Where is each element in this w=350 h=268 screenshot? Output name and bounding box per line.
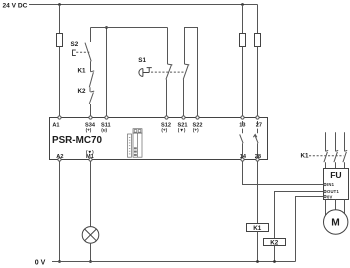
svg-text:S2: S2	[71, 41, 79, 48]
DIP switch marks	[129, 137, 137, 156]
svg-text:13: 13	[239, 122, 245, 128]
wire FU to motor phase 1	[325, 200, 327, 218]
node junction on 24V rail at A1 column	[58, 3, 61, 6]
wire FU OUT1 to coil K2	[275, 192, 324, 239]
mech link dashed contactor K1	[309, 155, 344, 157]
svg-text:14: 14	[240, 154, 247, 160]
three phase feeder L1	[325, 132, 327, 151]
wire fuse F2 to terminal 13	[242, 47, 244, 116]
svg-text:(▼): (▼)	[178, 128, 186, 133]
wire S11 riser to node	[106, 28, 108, 116]
relay contact 13-14 blade	[240, 134, 243, 143]
svg-text:28: 28	[255, 154, 261, 160]
contact S1-2 fixed nib	[185, 63, 190, 66]
relay contact 27-28 blade	[255, 135, 258, 143]
wire K2 contact to terminal S34	[90, 104, 92, 116]
svg-text:K2: K2	[78, 88, 87, 95]
wire 24V rail to fuse F1	[59, 5, 61, 34]
node junction A2 on 0V rail	[58, 260, 61, 263]
wire contact2 top U to S22	[185, 28, 198, 116]
svg-text:S1: S1	[138, 57, 146, 64]
contact K2 blade	[89, 93, 93, 105]
wire coil K2 to 0V rail	[274, 246, 276, 262]
contactor K1 pole 3 nib	[345, 150, 348, 151]
contactor K1 pole 2 blade	[334, 152, 338, 162]
terminal 27	[256, 116, 259, 119]
wire K1 to K2 contact lead	[89, 87, 91, 92]
fuse F3	[255, 34, 261, 47]
relay contact 27-28 dashed lead	[257, 121, 259, 126]
contactor K1 pole 1 nib	[326, 150, 329, 151]
contact S1-1 blade	[166, 64, 172, 79]
svg-text:0 V: 0 V	[35, 259, 46, 266]
frequency converter FU body	[324, 169, 349, 200]
svg-text:24 V DC: 24 V DC	[3, 3, 28, 10]
svg-text:K2: K2	[270, 240, 279, 247]
node junction K2 on 0V rail	[273, 260, 276, 263]
S1 actuator stem	[143, 68, 152, 73]
node junction lamp on 0V rail	[89, 260, 92, 263]
three phase feeder L2	[335, 132, 337, 151]
three phase feeder L3	[344, 132, 346, 151]
DIP switch block left column	[128, 134, 132, 157]
contact K1 blade	[89, 72, 93, 87]
terminal 14	[241, 158, 244, 161]
wire fuse F1 to terminal A1	[59, 47, 61, 116]
terminal S22	[196, 116, 199, 119]
svg-text:A1: A1	[52, 122, 59, 128]
wire 24V rail corner to fuse F3	[257, 5, 259, 34]
node junction K1 on 0V rail	[256, 260, 259, 263]
wire S2 to K1 contact lead	[90, 61, 92, 71]
relay coil K2	[264, 239, 286, 246]
svg-text:(u): (u)	[101, 128, 107, 133]
contactor K1 pole 1 lead to FU	[325, 162, 327, 168]
wire 24V rail to fuse F2	[242, 5, 244, 34]
terminal A1	[58, 116, 61, 119]
wire S2 branch top lead	[90, 28, 92, 43]
0V supply rail	[52, 261, 296, 263]
svg-text:(+): (+)	[193, 128, 199, 133]
svg-text:(+): (+)	[161, 128, 167, 133]
relay contact 27-28 caret mark	[253, 134, 257, 137]
contactor K1 pole 2 nib	[336, 150, 339, 151]
wire FU to motor phase 2	[335, 200, 337, 213]
indicator lamp	[82, 227, 99, 244]
wire S11 node horizontal to S2 branch and S1 contact 1	[91, 27, 168, 29]
wire terminal 28 to coil K1	[257, 161, 259, 223]
svg-text:IN1: IN1	[327, 182, 335, 187]
fuse F1	[57, 34, 63, 47]
svg-text:K1: K1	[78, 68, 87, 75]
24 V DC supply rail	[29, 4, 258, 6]
FU pin IN1	[324, 183, 326, 185]
wire terminal S21 to contact 2 lead	[183, 79, 185, 116]
svg-text:K1: K1	[301, 152, 310, 159]
contact S1-2 blade	[183, 64, 188, 79]
relay module PSR-MC70 body	[50, 118, 268, 160]
contactor K1 pole 1 blade	[324, 152, 328, 162]
FU pin OUT1	[324, 190, 326, 192]
wire S1 contact1 to terminal S12	[166, 79, 168, 116]
svg-text:0V: 0V	[327, 194, 333, 199]
svg-text:27: 27	[256, 122, 262, 128]
wire contact to terminal 14	[242, 143, 244, 158]
node junction S11 top	[105, 26, 108, 29]
svg-text:(▼): (▼)	[86, 149, 94, 154]
mech link dashed S1 to contacts	[151, 71, 185, 73]
motor M	[324, 210, 348, 234]
terminal A2	[58, 158, 61, 161]
wire S1 feed drop to contact 1	[167, 28, 169, 65]
wire lamp to 0V rail	[90, 243, 92, 261]
relay contact 13-14 dashed lead	[242, 121, 244, 126]
svg-text:PSR-MC70: PSR-MC70	[52, 135, 102, 146]
svg-text:FU: FU	[330, 170, 341, 180]
terminal S21	[182, 116, 185, 119]
wire terminal A2 to 0V rail	[59, 161, 61, 261]
DIP switch block right columns	[133, 133, 142, 157]
relay coil K1	[247, 224, 269, 232]
terminal 28	[256, 158, 259, 161]
fuse F2	[240, 34, 246, 47]
terminal 13	[241, 116, 244, 119]
contact K2 fixed nib	[91, 90, 95, 93]
svg-text:A2: A2	[56, 154, 63, 160]
svg-text:M1: M1	[86, 154, 94, 160]
wire coil K1 to 0V rail	[257, 232, 259, 262]
node junction on 24V rail at 13 column	[241, 3, 244, 6]
svg-text:M: M	[331, 218, 340, 229]
terminal S11	[105, 116, 108, 119]
terminal S12	[165, 116, 168, 119]
DIP switch block top pair	[133, 129, 142, 133]
svg-text:(+): (+)	[86, 128, 92, 133]
wire FU to motor phase 3	[344, 200, 346, 217]
mech link dashed S2 actuator to blade	[76, 51, 89, 53]
switch S2 manual actuator symbol	[73, 50, 76, 56]
contactor K1 pole 2 lead to FU	[335, 162, 337, 168]
emergency stop S1 mushroom head	[139, 69, 143, 77]
svg-text:K1: K1	[253, 225, 262, 232]
wire terminal 14 to FU IN1	[243, 161, 324, 184]
FU pin 0V	[324, 195, 326, 197]
terminal S34	[89, 116, 92, 119]
contact S1-1 fixed nib	[168, 63, 173, 66]
wire FU 0V pin to 0V rail	[296, 197, 324, 262]
wire terminal M1 to lamp	[90, 161, 92, 227]
terminal M1	[89, 158, 92, 161]
switch S2 blade (NC reset button)	[85, 43, 91, 62]
wire fuse F3 to terminal 27	[257, 47, 259, 116]
wire contact to terminal 28	[257, 143, 259, 158]
contact K1 fixed nib	[91, 70, 95, 73]
contactor K1 pole 3 blade	[343, 152, 347, 162]
contactor K1 pole 3 lead to FU	[344, 162, 346, 168]
